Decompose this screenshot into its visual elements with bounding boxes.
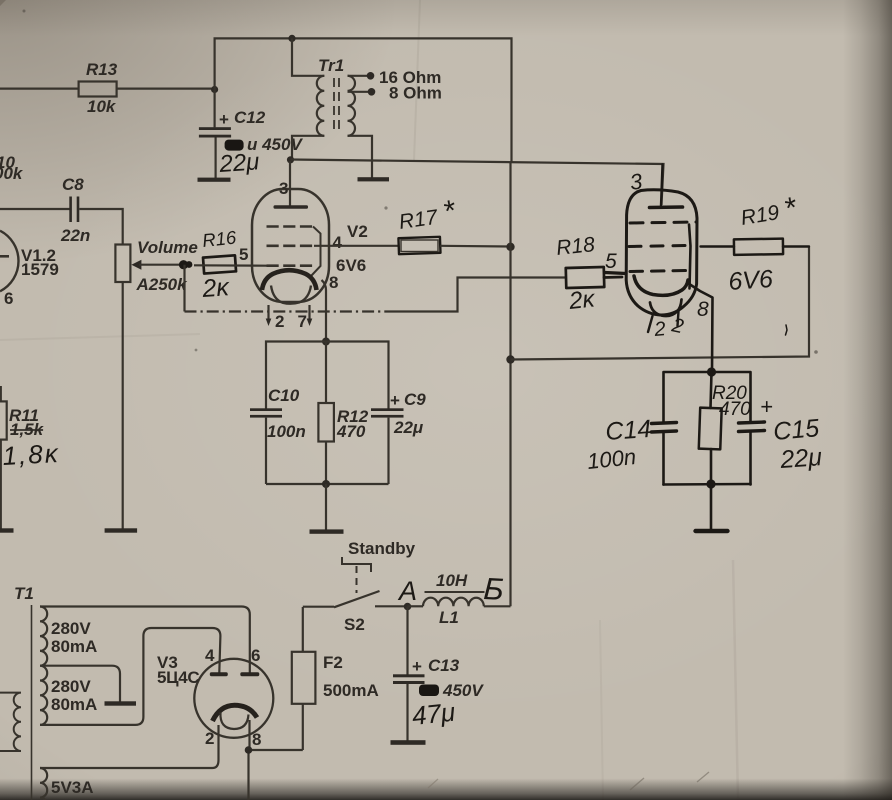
- V3 pin8 wire: [249, 720, 303, 800]
- wire network top rail: [266, 342, 389, 409]
- svg-text:5V3A: 5V3A: [51, 778, 94, 797]
- wire C10 bottom: [265, 418, 267, 484]
- ground C12: [198, 178, 231, 182]
- svg-text:Б: Б: [483, 571, 505, 607]
- svg-text:00k: 00k: [0, 164, 24, 183]
- node A handwritten label: [397, 576, 417, 606]
- C12 handwritten value 22µ: [218, 148, 261, 178]
- node network bottom: [322, 480, 330, 488]
- svg-text:280V: 280V: [51, 619, 91, 638]
- wire rail to Tr1 primary top: [292, 38, 324, 75]
- node R17/B+: [506, 243, 514, 251]
- V2 grid row2 screen: [267, 245, 315, 248]
- svg-text:2ĸ: 2ĸ: [567, 285, 598, 315]
- V2 grid row1 beam plates: [267, 227, 321, 276]
- svg-text:A: A: [397, 576, 417, 606]
- wire screen feed to R19: [511, 247, 810, 360]
- transformer Tr1 label: [318, 56, 344, 75]
- V2 plate lead: [289, 161, 291, 206]
- wire node A to C13: [406, 607, 408, 675]
- T1 HV labels: [51, 619, 97, 714]
- wire pot to ground: [122, 282, 124, 529]
- capacitor C9: [371, 390, 426, 437]
- svg-text:2: 2: [653, 318, 667, 341]
- V right pin labels 2 2: [653, 314, 686, 341]
- svg-text:2: 2: [669, 314, 685, 338]
- svg-text:1,5k: 1,5k: [10, 420, 45, 439]
- svg-text:R16: R16: [201, 226, 238, 251]
- svg-text:2: 2: [275, 312, 284, 331]
- svg-text:1579: 1579: [21, 260, 59, 279]
- node junction R13/C12: [211, 86, 218, 93]
- capacitor C12: [199, 108, 266, 138]
- resistor R18 handwritten: [555, 233, 617, 315]
- wire HV centre tap: [40, 666, 120, 702]
- fuse F2: [292, 607, 379, 750]
- T1 5V winding: [40, 768, 94, 800]
- capacitor C10: [250, 386, 306, 441]
- wire Tr1 primary bottom to plate node: [292, 136, 324, 160]
- T1 core: [31, 605, 33, 800]
- wire 16 Ohm tap: [348, 68, 442, 87]
- wire C15 bottom: [749, 432, 752, 485]
- wire R13 to node: [117, 87, 215, 89]
- V right pin3 lead: [628, 165, 662, 206]
- node V3 pin8: [245, 746, 253, 754]
- svg-text:500mA: 500mA: [323, 681, 379, 700]
- resistor R19 handwritten: [701, 191, 810, 255]
- wire C8 input: [0, 208, 70, 210]
- svg-text:470: 470: [719, 399, 751, 420]
- svg-text:47μ: 47μ: [410, 697, 456, 731]
- wire R16 to V2 pin5: [194, 245, 267, 266]
- svg-text:C8: C8: [62, 175, 84, 194]
- Tr1 primary winding: [317, 76, 324, 136]
- wire Tr1 secondary bottom to ground: [348, 136, 373, 178]
- svg-text:C9: C9: [404, 390, 426, 409]
- svg-text:280V: 280V: [51, 677, 91, 696]
- Tr1 core: [334, 78, 339, 133]
- V2 labels: [329, 222, 368, 292]
- V2 bottom dome: [271, 286, 311, 304]
- transformer T1 label: [14, 584, 34, 603]
- node pin8 / network top: [322, 338, 330, 346]
- svg-text:4: 4: [205, 646, 215, 665]
- wire right network ground: [710, 484, 713, 530]
- svg-text:A250k: A250k: [136, 275, 189, 294]
- wire grid bus from wiper: [185, 265, 567, 312]
- tube V2 envelope: [252, 189, 329, 302]
- wire C14 bottom: [662, 433, 665, 485]
- C12 scribbled old value: [225, 135, 304, 154]
- pot wiper arrow: [131, 260, 184, 270]
- wire right network bottom rail: [664, 483, 751, 486]
- svg-text:470: 470: [336, 422, 366, 441]
- ground right network: [696, 529, 728, 533]
- svg-text:R19: R19: [739, 201, 781, 230]
- wire HV bottom to V3 pin4: [40, 628, 220, 725]
- wire right network top rail: [664, 372, 751, 423]
- ground cathode network: [310, 529, 344, 533]
- V2 pin8 cathode wire: [322, 280, 327, 342]
- V3 plate pin4: [210, 672, 228, 676]
- svg-text:5: 5: [239, 245, 248, 264]
- V2 pin4 screen wire: [314, 245, 399, 247]
- svg-text:+: +: [390, 391, 400, 410]
- svg-text:22μ: 22μ: [393, 418, 424, 437]
- V2 grid row3 control: [267, 264, 314, 267]
- V right cathode: [634, 276, 688, 295]
- switch S2 actuator: [342, 557, 371, 593]
- svg-text:R17: R17: [397, 206, 440, 234]
- svg-text:100n: 100n: [267, 422, 306, 441]
- resistor R16 handwritten: [200, 226, 237, 303]
- svg-text:2: 2: [205, 729, 214, 748]
- svg-text:C15: C15: [772, 414, 820, 446]
- wire B+ top rail: [215, 38, 512, 163]
- svg-text:Volume: Volume: [137, 238, 198, 257]
- svg-text:+: +: [219, 110, 229, 129]
- svg-text:8: 8: [697, 298, 709, 321]
- svg-text:6: 6: [4, 289, 13, 308]
- ground centre tap: [105, 701, 137, 705]
- svg-text:R13: R13: [86, 60, 118, 79]
- svg-text:5Ц4С: 5Ц4С: [157, 668, 199, 687]
- V3 filament: [213, 705, 258, 729]
- V right grid row3: [630, 271, 689, 272]
- wire plate bus V2 to right tube: [291, 160, 664, 206]
- resistor R20 handwritten: [699, 372, 751, 485]
- node B+ screen feed: [506, 355, 514, 363]
- label partial 10 / 00k: [0, 153, 24, 183]
- svg-text:6: 6: [251, 646, 260, 665]
- ground C13: [391, 740, 426, 745]
- V right grid row2: [629, 246, 686, 247]
- wire 8 Ohm tap: [348, 84, 442, 103]
- wire C9 bottom: [387, 418, 389, 484]
- V2 plate: [274, 205, 309, 208]
- V right grid row1: [630, 222, 696, 223]
- svg-text:10H: 10H: [436, 571, 468, 590]
- wire input to R13: [0, 87, 79, 89]
- resistor R17 handwritten over print: [397, 194, 459, 254]
- node wiper junction blob: [179, 260, 193, 269]
- svg-text:C12: C12: [234, 108, 266, 127]
- svg-text:T1: T1: [14, 584, 34, 603]
- V right 6V6 label: [727, 265, 773, 296]
- C13 handwritten 47µ: [410, 697, 456, 731]
- inductor L1: [408, 571, 511, 627]
- svg-text:1,8ĸ: 1,8ĸ: [2, 438, 61, 471]
- ground Tr1 secondary: [358, 177, 390, 181]
- svg-text:7: 7: [298, 312, 307, 331]
- svg-text:4: 4: [333, 233, 343, 252]
- svg-text:5: 5: [605, 250, 617, 273]
- node B handwritten label: [483, 571, 505, 607]
- svg-text:3: 3: [628, 168, 644, 195]
- V right pin8 wire: [689, 284, 713, 372]
- svg-text:2ĸ: 2ĸ: [200, 273, 231, 303]
- svg-text:100n: 100n: [586, 444, 637, 474]
- svg-text:3: 3: [279, 179, 288, 198]
- resistor R11 partial: [0, 386, 60, 529]
- wire C12 to ground: [215, 138, 217, 179]
- switch S2 standby label: [348, 539, 416, 558]
- V3 plate pin6: [240, 672, 259, 676]
- wire R17 to B+: [440, 245, 510, 248]
- svg-text:10k: 10k: [87, 97, 117, 116]
- svg-text:+: +: [760, 394, 773, 419]
- node right network bottom: [706, 479, 715, 488]
- V right plate: [650, 205, 683, 209]
- svg-text:8: 8: [252, 730, 261, 749]
- C13 scribbled old value: [419, 681, 484, 700]
- wire C13 to ground: [406, 684, 408, 741]
- T1 primary winding partial: [0, 693, 21, 751]
- svg-text:+: +: [412, 657, 422, 676]
- svg-text:L1: L1: [439, 608, 459, 627]
- node plate junction: [287, 156, 294, 163]
- svg-text:R18: R18: [555, 233, 596, 260]
- svg-text:C13: C13: [428, 656, 460, 675]
- ground R11: [0, 528, 14, 532]
- svg-text:*: *: [440, 194, 459, 229]
- svg-text:S2: S2: [344, 615, 365, 634]
- svg-text:V2: V2: [347, 222, 368, 241]
- capacitor C13: [393, 656, 460, 684]
- svg-text:C10: C10: [268, 386, 300, 405]
- svg-text:80mA: 80mA: [51, 637, 97, 656]
- tube V1.2 partial: [0, 231, 59, 308]
- wire network to ground: [325, 484, 327, 530]
- ground pot: [105, 528, 138, 532]
- V3 labels: [157, 646, 261, 749]
- resistor R13: [79, 60, 118, 116]
- small tick mark right: [786, 325, 788, 335]
- svg-text:C14: C14: [604, 415, 652, 446]
- wire C8 to pot: [79, 209, 122, 245]
- resistor R12: [318, 342, 368, 485]
- wire HV top to V3 pin6: [40, 607, 250, 673]
- V2 pin3 label: [279, 179, 288, 198]
- capacitor C14: [586, 415, 677, 474]
- svg-text:Tr1: Tr1: [318, 56, 344, 75]
- svg-text:Standby: Standby: [348, 539, 416, 558]
- Tr1 secondary winding: [348, 76, 356, 136]
- capacitor C8: [60, 175, 90, 245]
- svg-text:F2: F2: [323, 653, 343, 672]
- T1 HV winding: [40, 607, 47, 725]
- svg-text:*: *: [781, 191, 800, 226]
- svg-text:80mA: 80mA: [51, 695, 97, 714]
- node right network top: [707, 367, 716, 376]
- V2 heater pin7 arrow: [298, 305, 313, 331]
- capacitor C15: [739, 394, 824, 474]
- V right screen strap: [689, 225, 691, 289]
- wire network bottom rail: [266, 483, 389, 485]
- node rail / Tr1 primary junction: [288, 35, 295, 42]
- svg-text:22μ: 22μ: [778, 443, 823, 474]
- wire R18 to right tube grid: [604, 273, 626, 278]
- wire 5V top to V3 pin2: [40, 725, 219, 768]
- svg-text:8: 8: [329, 273, 338, 292]
- potentiometer Volume A250k: [115, 238, 197, 294]
- V2 cathode: [262, 270, 317, 290]
- wire B+ vertical: [509, 163, 511, 606]
- V2 heater pin2 arrow: [266, 305, 285, 331]
- tube V right envelope handdrawn: [626, 190, 697, 332]
- node A junction: [404, 603, 412, 611]
- svg-text:22n: 22n: [60, 226, 90, 245]
- switch S2 blade: [303, 591, 408, 634]
- svg-text:6V6: 6V6: [727, 265, 773, 296]
- svg-text:22μ: 22μ: [218, 148, 261, 178]
- svg-text:6V6: 6V6: [336, 256, 366, 275]
- tube V3 envelope: [194, 659, 273, 738]
